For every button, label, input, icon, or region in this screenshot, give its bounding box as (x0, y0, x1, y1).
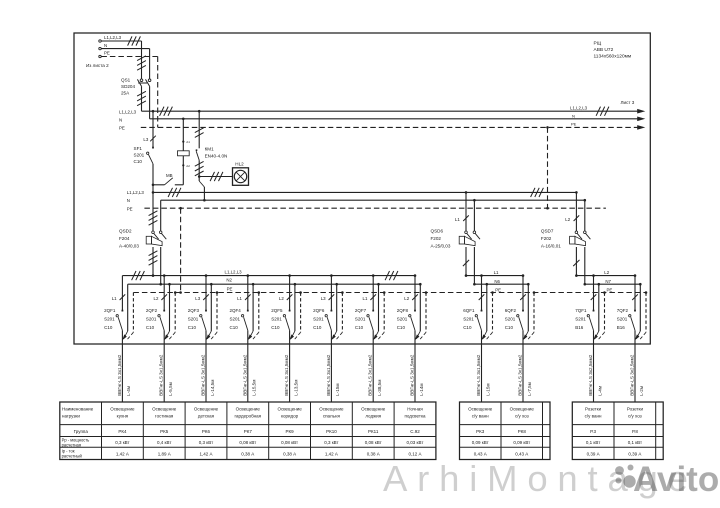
svg-text:0,4 кВт: 0,4 кВт (157, 440, 171, 445)
svg-text:А-25/0,03: А-25/0,03 (431, 244, 451, 249)
svg-text:C10: C10 (230, 325, 239, 330)
svg-text:L1,L2,L3: L1,L2,L3 (570, 105, 588, 110)
svg-text:F204: F204 (119, 236, 130, 241)
svg-text:0,1 кВт: 0,1 кВт (628, 440, 642, 445)
svg-text:С.92: С.92 (410, 429, 420, 434)
svg-text:нагрузки: нагрузки (62, 413, 80, 418)
svg-text:детская: детская (198, 413, 215, 418)
svg-text:L1,L2,L3: L1,L2,L3 (127, 190, 145, 195)
svg-text:L-7,5м: L-7,5м (527, 382, 532, 396)
svg-text:HL2: HL2 (235, 162, 244, 167)
svg-text:0,08 кВт: 0,08 кВт (239, 440, 256, 445)
svg-text:гостиная: гостиная (155, 413, 174, 418)
svg-text:Освещение: Освещение (152, 406, 177, 411)
svg-text:ВВГнг-LS 3х2,5мм2: ВВГнг-LS 3х2,5мм2 (630, 354, 635, 396)
svg-text:S201: S201 (134, 153, 145, 158)
svg-text:Из листа 2: Из листа 2 (86, 63, 109, 68)
svg-text:ВВГнг-LS 3х1,5мм2: ВВГнг-LS 3х1,5мм2 (159, 354, 164, 396)
svg-text:РК5: РК5 (160, 429, 169, 434)
svg-text:L-4м: L-4м (126, 386, 131, 396)
svg-text:РК11: РК11 (368, 429, 379, 434)
svg-text:N2: N2 (226, 278, 232, 283)
svg-text:EN40-4.0N: EN40-4.0N (205, 154, 228, 159)
svg-text:расчетная: расчетная (62, 442, 81, 447)
svg-text:C10: C10 (134, 159, 143, 164)
svg-text:0,08 кВт: 0,08 кВт (281, 440, 298, 445)
svg-text:Группа: Группа (74, 429, 89, 434)
svg-text:S201: S201 (271, 317, 282, 322)
svg-text:лоджия: лоджия (365, 413, 381, 418)
svg-text:А-16/0,01: А-16/0,01 (541, 244, 561, 249)
svg-text:РК6: РК6 (202, 429, 211, 434)
svg-text:0,12 А: 0,12 А (408, 452, 421, 457)
svg-text:1,42 А: 1,42 А (116, 452, 129, 457)
svg-text:PE: PE (119, 126, 125, 131)
svg-text:ВВГнг-LS 3х1,5мм2: ВВГнг-LS 3х1,5мм2 (476, 354, 481, 396)
svg-text:N: N (119, 118, 122, 123)
svg-text:0,3 кВт: 0,3 кВт (324, 440, 338, 445)
svg-text:C10: C10 (355, 325, 364, 330)
svg-text:C10: C10 (104, 325, 113, 330)
svg-text:0,08 кВт: 0,08 кВт (365, 440, 382, 445)
svg-text:S201: S201 (230, 317, 241, 322)
svg-text:B16: B16 (575, 325, 584, 330)
svg-text:спальня: спальня (323, 413, 341, 418)
svg-text:МВ: МВ (166, 173, 173, 178)
svg-text:C10: C10 (313, 325, 322, 330)
svg-text:PE: PE (495, 287, 501, 292)
svg-text:Освещение: Освещение (277, 406, 302, 411)
svg-text:Лист 3: Лист 3 (621, 100, 635, 105)
svg-text:L-38,5м: L-38,5м (377, 380, 382, 396)
svg-text:0,03 кВт: 0,03 кВт (407, 440, 424, 445)
svg-text:РК9: РК9 (286, 429, 295, 434)
svg-text:L1: L1 (494, 270, 499, 275)
svg-text:ВВГнг-LS 3х1,5мм2: ВВГнг-LS 3х1,5мм2 (201, 354, 206, 396)
svg-text:2QF6: 2QF6 (313, 308, 325, 313)
svg-text:L2: L2 (154, 296, 159, 301)
svg-text:N: N (104, 43, 107, 48)
svg-text:PE: PE (227, 286, 233, 291)
svg-text:2QF5: 2QF5 (271, 308, 283, 313)
svg-text:L2: L2 (279, 296, 284, 301)
svg-text:7QF2: 7QF2 (617, 308, 629, 313)
svg-text:PE: PE (571, 122, 577, 127)
svg-text:N: N (127, 198, 130, 203)
svg-text:L-15,5м: L-15,5м (252, 380, 257, 396)
svg-text:РК10: РК10 (326, 429, 337, 434)
svg-text:подсветка: подсветка (404, 413, 426, 418)
svg-text:Р.3: Р.3 (590, 429, 596, 434)
svg-text:L1,L2,L3: L1,L2,L3 (119, 109, 137, 114)
svg-text:с/у ванн: с/у ванн (472, 413, 489, 418)
svg-text:ВВГнг-LS 3х1,5мм2: ВВГнг-LS 3х1,5мм2 (368, 354, 373, 396)
svg-text:L1,L2,L3: L1,L2,L3 (225, 269, 243, 274)
svg-text:7QF1: 7QF1 (575, 308, 587, 313)
svg-text:1,42 А: 1,42 А (325, 452, 338, 457)
svg-text:2QF2: 2QF2 (146, 308, 158, 313)
svg-text:Р.8: Р.8 (632, 429, 638, 434)
svg-text:КМ1: КМ1 (205, 147, 215, 152)
svg-text:Освещение: Освещение (468, 406, 493, 411)
svg-text:S201: S201 (188, 317, 199, 322)
svg-text:Наименование: Наименование (62, 406, 94, 411)
svg-text:0,39 А: 0,39 А (628, 452, 641, 457)
svg-text:PE: PE (607, 287, 613, 292)
svg-text:РК3: РК3 (476, 429, 485, 434)
svg-text:0,09 кВт: 0,09 кВт (472, 440, 489, 445)
svg-text:L-2м: L-2м (639, 386, 644, 396)
svg-text:C10: C10 (146, 325, 155, 330)
svg-text:C10: C10 (271, 325, 280, 330)
svg-text:F202: F202 (431, 236, 442, 241)
svg-text:C10: C10 (505, 325, 514, 330)
svg-text:Освещение: Освещение (361, 406, 386, 411)
svg-text:L1: L1 (237, 296, 242, 301)
svg-text:АВВ U72: АВВ U72 (594, 47, 614, 53)
svg-text:QSD2: QSD2 (119, 229, 132, 234)
svg-text:SD204: SD204 (121, 84, 135, 89)
svg-text:S201: S201 (505, 317, 516, 322)
svg-text:ВВГнг-LS 3х1,5мм2: ВВГнг-LS 3х1,5мм2 (284, 354, 289, 396)
svg-text:L3: L3 (143, 137, 148, 142)
svg-text:0,38 А: 0,38 А (283, 452, 296, 457)
svg-text:B16: B16 (617, 325, 626, 330)
svg-text:РК7: РК7 (244, 429, 253, 434)
svg-text:0,1 кВт: 0,1 кВт (586, 440, 600, 445)
svg-text:L1: L1 (363, 296, 368, 301)
svg-text:QSD7: QSD7 (541, 229, 554, 234)
svg-text:ВВГнг-LS 3х1,5мм2: ВВГнг-LS 3х1,5мм2 (242, 354, 247, 396)
svg-text:F202: F202 (541, 236, 552, 241)
svg-text:N: N (572, 113, 575, 118)
svg-text:C10: C10 (188, 325, 197, 330)
svg-text:S201: S201 (355, 317, 366, 322)
svg-text:L1: L1 (455, 217, 460, 222)
svg-text:C10: C10 (463, 325, 472, 330)
svg-text:2QF3: 2QF3 (188, 308, 200, 313)
svg-text:2QF4: 2QF4 (230, 308, 242, 313)
svg-text:L3: L3 (321, 296, 326, 301)
svg-text:QSD6: QSD6 (431, 229, 444, 234)
svg-text:кухня: кухня (117, 413, 129, 418)
svg-text:ВВГнг-LS 3х1,5мм2: ВВГнг-LS 3х1,5мм2 (326, 354, 331, 396)
svg-text:Освещение: Освещение (510, 406, 535, 411)
svg-text:L1: L1 (112, 296, 117, 301)
svg-text:0,38 А: 0,38 А (367, 452, 380, 457)
svg-text:S201: S201 (104, 317, 115, 322)
svg-text:Розетки: Розетки (627, 406, 644, 411)
svg-text:S201: S201 (617, 317, 628, 322)
svg-text:Розетки: Розетки (585, 406, 602, 411)
svg-text:L-13,5м: L-13,5м (293, 380, 298, 396)
svg-text:ВВГнг-LS 3х2,5мм2: ВВГнг-LS 3х2,5мм2 (588, 354, 593, 396)
svg-text:Ночная: Ночная (407, 406, 423, 411)
svg-text:А-40/0,03: А-40/0,03 (119, 244, 139, 249)
svg-text:N6: N6 (494, 279, 500, 284)
svg-text:PE: PE (127, 206, 133, 211)
svg-text:25A: 25A (121, 91, 130, 96)
svg-text:РЩ: РЩ (594, 41, 602, 47)
svg-text:1,42 А: 1,42 А (199, 452, 212, 457)
svg-text:S201: S201 (463, 317, 474, 322)
svg-text:L-15м: L-15м (485, 383, 490, 395)
svg-text:2QF7: 2QF7 (355, 308, 367, 313)
svg-text:ВВГнг-LS 3х1,5мм2: ВВГнг-LS 3х1,5мм2 (117, 354, 122, 396)
svg-text:0,09 кВт: 0,09 кВт (513, 440, 530, 445)
svg-text:гардеробная: гардеробная (235, 413, 262, 418)
svg-text:ВВГнг-LS 3х1,5мм2: ВВГнг-LS 3х1,5мм2 (518, 354, 523, 396)
svg-text:Освещение: Освещение (110, 406, 135, 411)
svg-text:L2: L2 (404, 296, 409, 301)
svg-text:L-14м: L-14м (419, 383, 424, 395)
svg-text:с/у хоз: с/у хоз (628, 413, 642, 418)
svg-text:S201: S201 (575, 317, 586, 322)
svg-text:2QF1: 2QF1 (104, 308, 116, 313)
svg-text:Освещение: Освещение (194, 406, 219, 411)
svg-text:L-5,5м: L-5,5м (168, 382, 173, 396)
svg-text:0,43 А: 0,43 А (474, 452, 487, 457)
svg-text:C10: C10 (397, 325, 406, 330)
svg-text:L-15м: L-15м (335, 383, 340, 395)
svg-text:A1: A1 (186, 140, 190, 144)
svg-text:0,38 А: 0,38 А (241, 452, 254, 457)
svg-text:L2: L2 (565, 217, 570, 222)
svg-text:L3: L3 (195, 296, 200, 301)
svg-text:PE: PE (104, 51, 110, 56)
svg-text:N7: N7 (605, 279, 611, 284)
svg-text:Avito: Avito (633, 460, 719, 499)
svg-text:0,3 кВт: 0,3 кВт (199, 440, 213, 445)
svg-text:0,43 А: 0,43 А (515, 452, 528, 457)
svg-text:S201: S201 (146, 317, 157, 322)
svg-text:S201: S201 (397, 317, 408, 322)
svg-text:с/у хоз: с/у хоз (515, 413, 529, 418)
svg-text:РК4: РК4 (118, 429, 127, 434)
svg-text:0,3 кВт: 0,3 кВт (115, 440, 129, 445)
svg-text:2QF8: 2QF8 (397, 308, 409, 313)
svg-text:с/у ванн: с/у ванн (585, 413, 602, 418)
svg-text:A2: A2 (186, 164, 190, 168)
svg-text:коридор: коридор (281, 413, 299, 418)
svg-text:1,89 А: 1,89 А (158, 452, 171, 457)
svg-text:Освещение: Освещение (236, 406, 261, 411)
svg-text:Освещение: Освещение (319, 406, 344, 411)
svg-text:L2: L2 (604, 270, 609, 275)
svg-text:расчетный: расчетный (62, 453, 82, 458)
svg-text:SF1: SF1 (134, 146, 143, 151)
svg-text:ВВГнг-LS 3х1,5мм2: ВВГнг-LS 3х1,5мм2 (410, 354, 415, 396)
svg-text:6QF1: 6QF1 (463, 308, 475, 313)
svg-text:0,39 А: 0,39 А (587, 452, 600, 457)
svg-text:S201: S201 (313, 317, 324, 322)
svg-text:QS1: QS1 (121, 78, 131, 83)
svg-text:1134х560х120мм: 1134х560х120мм (594, 54, 632, 60)
svg-text:L-4м: L-4м (597, 386, 602, 396)
svg-text:РК8: РК8 (518, 429, 527, 434)
svg-text:6QF2: 6QF2 (505, 308, 517, 313)
svg-text:L1,L2,L3: L1,L2,L3 (104, 35, 122, 40)
svg-text:L-14,5м: L-14,5м (210, 380, 215, 396)
